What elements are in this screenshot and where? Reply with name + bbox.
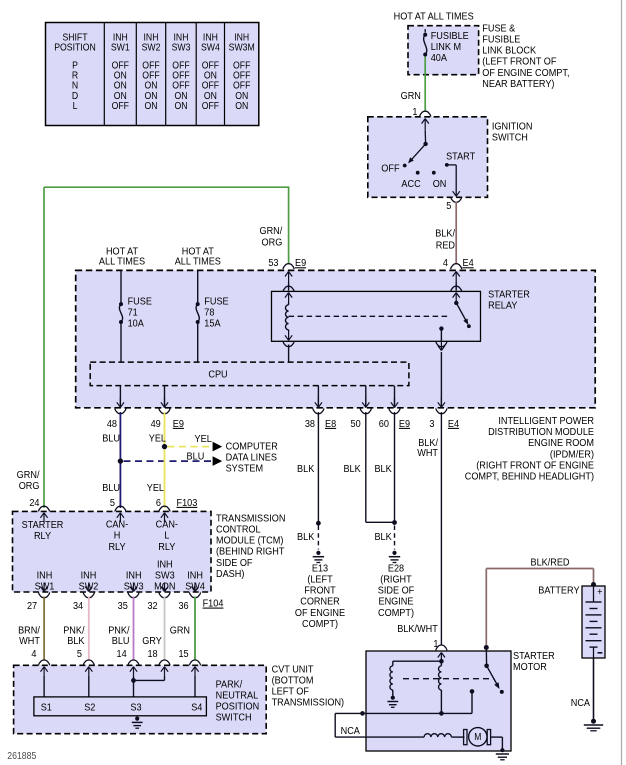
svg-text:BLK/WHT: BLK/WHT [397, 623, 438, 635]
relay switch arm [456, 303, 467, 323]
svg-text:INH: INH [144, 32, 159, 43]
svg-text:SW1: SW1 [111, 42, 130, 53]
label BRN/WHT [18, 625, 40, 637]
junction battery ground [591, 719, 596, 724]
wire PNK/BLK pin 34 to CVT pin 5 [88, 597, 90, 661]
svg-text:OFF: OFF [172, 60, 190, 71]
svg-text:INH: INH [157, 559, 173, 571]
starter motor brushes [451, 736, 464, 738]
starter motor solid box [366, 651, 511, 751]
svg-text:FUSE: FUSE [128, 296, 153, 308]
svg-text:INH: INH [81, 570, 97, 582]
dashed YEL data line [168, 446, 212, 448]
svg-text:H: H [114, 530, 121, 542]
svg-text:LEFT OF: LEFT OF [272, 686, 309, 698]
battery minus sign [598, 652, 603, 654]
svg-text:OFF: OFF [233, 70, 251, 81]
ground park/neutral switch [135, 717, 139, 721]
wire GRN fuse block to ignition switch [424, 57, 426, 75]
label BLK/RED vertical [435, 228, 455, 240]
svg-text:ON: ON [144, 90, 157, 101]
wire to fuse 78 [197, 270, 199, 303]
fuse 78 15A [196, 302, 200, 306]
svg-text:OFF: OFF [172, 70, 190, 81]
IPDM bottom pin labels [107, 418, 118, 430]
connector pin 5 ignition switch [451, 197, 462, 202]
ignition switch ACC contact [416, 171, 420, 175]
svg-text:D: D [72, 90, 78, 101]
svg-text:BLU: BLU [102, 483, 120, 495]
TCM top pin connectors [38, 506, 49, 511]
label NCA starter [341, 725, 361, 737]
svg-text:CAN-: CAN- [106, 519, 128, 531]
wire GRN pin 36 to CVT pin 15 [194, 597, 196, 661]
junction on BLU wire [118, 458, 123, 463]
svg-text:YEL: YEL [147, 483, 165, 495]
starter bus wire [363, 712, 473, 714]
starter switch arm [487, 666, 499, 687]
label OFF [381, 163, 399, 175]
connector pin 1 starter motor [436, 645, 447, 650]
svg-text:ON: ON [114, 70, 127, 81]
IPDM bottom pin connectors [119, 397, 121, 407]
svg-text:10A: 10A [128, 318, 145, 330]
dashed BLK to E13 [317, 526, 319, 550]
svg-text:INH: INH [126, 570, 142, 582]
junction on YEL wire [162, 444, 167, 449]
label CAN-L RLY [156, 519, 178, 531]
relay output contact [439, 326, 443, 330]
wire GRY joins PNK/BLU node [164, 676, 166, 681]
svg-text:SIDE OF: SIDE OF [378, 585, 415, 597]
label GRN/ORG right [259, 225, 282, 237]
svg-text:SW3: SW3 [155, 570, 175, 582]
svg-text:P: P [72, 60, 78, 71]
ignition switch ON contact [432, 171, 436, 175]
label PARK/NEUTRAL POSITION SWITCH [216, 679, 243, 691]
svg-text:40A: 40A [431, 53, 448, 65]
svg-text:OFF: OFF [202, 80, 220, 91]
label YEL upper [149, 433, 167, 445]
wire BLU pin 48 to TCM pin 5 [119, 412, 121, 508]
label GRN [401, 90, 421, 102]
svg-text:BLU: BLU [112, 636, 130, 648]
svg-text:DATA LINES: DATA LINES [226, 452, 278, 464]
entry arrow pin 4 inside IPDM [455, 272, 457, 283]
svg-text:FUSIBLE: FUSIBLE [482, 34, 520, 46]
label S4 [191, 702, 203, 714]
svg-text:OFF: OFF [142, 60, 160, 71]
data line arrow YEL [213, 442, 223, 452]
svg-text:COMPT): COMPT) [302, 618, 338, 630]
svg-text:CPU: CPU [208, 369, 227, 381]
label S2 [84, 702, 95, 714]
label HOT AT ALL TIMES fuse 78 [182, 246, 214, 258]
wire YEL pin 49 to TCM pin 6 [164, 412, 166, 508]
svg-text:OF ENGINE: OF ENGINE [295, 607, 346, 619]
svg-text:(LEFT FRONT OF: (LEFT FRONT OF [482, 56, 556, 68]
pin 4 label and E4 [443, 258, 449, 270]
svg-text:OFF: OFF [142, 70, 160, 81]
svg-text:71: 71 [128, 307, 138, 319]
svg-text:38: 38 [305, 418, 316, 430]
svg-text:ON: ON [144, 101, 157, 112]
page right border [621, 0, 623, 765]
svg-text:OFF: OFF [202, 60, 220, 71]
label PNK/BLK [63, 625, 85, 637]
dashed BLK to E28 [394, 526, 396, 550]
wire fuse 78 to CPU [197, 324, 199, 363]
fusible link M 40A fuse symbol [424, 29, 426, 33]
svg-text:FRONT: FRONT [304, 585, 335, 597]
svg-text:E9: E9 [399, 418, 410, 430]
label E13 location [312, 563, 329, 575]
label CAN-H RLY [106, 519, 128, 531]
CVT top pin connectors [39, 660, 50, 665]
svg-text:ON: ON [144, 80, 157, 91]
CPU output wires to bottom pins [119, 386, 121, 408]
svg-text:ORG: ORG [262, 237, 283, 249]
relay coil [288, 302, 290, 305]
CVT unit dashed box [14, 665, 267, 733]
svg-text:(RIGHT FRONT OF ENGINE: (RIGHT FRONT OF ENGINE [476, 460, 594, 472]
svg-text:BLK: BLK [297, 463, 315, 475]
svg-text:ON: ON [433, 178, 447, 190]
svg-text:ON: ON [204, 90, 217, 101]
starter hold-in coil [439, 666, 442, 690]
starter armature inductor [424, 734, 451, 737]
battery bottom stub [593, 647, 595, 658]
label INH SW2 [81, 570, 97, 582]
svg-text:SHIFT: SHIFT [62, 32, 87, 43]
svg-text:E9: E9 [295, 258, 306, 270]
starter switch contact [470, 689, 475, 694]
svg-text:START: START [446, 151, 475, 163]
svg-text:BLK: BLK [374, 531, 392, 543]
svg-text:INH: INH [113, 32, 128, 43]
svg-text:53: 53 [268, 258, 279, 270]
battery plus sign [597, 586, 603, 598]
svg-text:49: 49 [151, 418, 161, 430]
svg-text:MODULE (TCM): MODULE (TCM) [216, 535, 283, 547]
svg-text:4: 4 [443, 258, 449, 270]
label S3 [130, 702, 142, 714]
svg-text:(LEFT: (LEFT [307, 574, 332, 586]
svg-text:HOT AT ALL TIMES: HOT AT ALL TIMES [394, 11, 475, 23]
ground pull-in coil [391, 696, 395, 700]
svg-text:48: 48 [107, 418, 118, 430]
label S1 [41, 702, 52, 714]
svg-text:NEAR BATTERY): NEAR BATTERY) [482, 78, 554, 90]
svg-text:36: 36 [178, 600, 189, 612]
starter motor M symbol [469, 728, 487, 746]
ground battery [591, 719, 595, 723]
CPU dashed box [90, 362, 409, 386]
svg-text:SW2: SW2 [142, 42, 161, 53]
svg-text:SYSTEM: SYSTEM [226, 463, 264, 475]
IPDM E/R dashed box [76, 270, 596, 407]
svg-text:GRN/: GRN/ [17, 469, 40, 481]
relay switch pivot [455, 301, 457, 304]
data line arrow BLU [213, 456, 223, 466]
svg-text:34: 34 [73, 600, 84, 612]
svg-text:BLK: BLK [297, 531, 315, 543]
svg-text:INH: INH [203, 32, 218, 43]
svg-text:32: 32 [147, 600, 157, 612]
svg-text:F104: F104 [203, 598, 224, 610]
CVT internal wires to switch [43, 676, 45, 697]
svg-text:S1: S1 [41, 702, 52, 714]
CVT pin labels [31, 648, 37, 660]
wire contact to bus [471, 691, 473, 713]
svg-text:GRN/: GRN/ [259, 225, 282, 237]
svg-text:E9: E9 [173, 418, 184, 430]
wire to fuse 71 [120, 270, 122, 303]
svg-text:ON: ON [174, 101, 187, 112]
svg-text:OFF: OFF [233, 80, 251, 91]
label BATTERY [538, 585, 580, 597]
svg-text:CAN-: CAN- [156, 519, 178, 531]
svg-text:LINK M: LINK M [431, 42, 461, 54]
svg-text:COMPT, BEHIND HEADLIGHT): COMPT, BEHIND HEADLIGHT) [465, 471, 594, 483]
svg-text:NCA: NCA [341, 725, 361, 737]
svg-text:STARTER: STARTER [513, 650, 555, 662]
svg-text:(BOTTOM: (BOTTOM [272, 675, 314, 687]
svg-text:STARTER: STARTER [22, 519, 64, 531]
svg-text:R: R [72, 70, 78, 81]
svg-text:261885: 261885 [7, 750, 36, 761]
svg-text:E13: E13 [312, 563, 329, 575]
svg-text:DASH): DASH) [216, 568, 244, 580]
svg-text:15: 15 [178, 648, 189, 660]
svg-text:ON: ON [204, 70, 217, 81]
starter relay solid box [272, 291, 481, 341]
label FUSE 78 15A [204, 296, 229, 308]
svg-text:5: 5 [110, 497, 116, 509]
svg-text:FUSE &: FUSE & [482, 23, 515, 35]
connector pin 53 IPDM [283, 264, 294, 269]
table rows data [72, 60, 78, 71]
label BLK wire 38 [297, 463, 315, 475]
relay output connector bottom [440, 341, 442, 351]
svg-text:BLK: BLK [343, 463, 361, 475]
svg-text:BLU: BLU [187, 451, 205, 463]
svg-text:24: 24 [29, 497, 40, 509]
svg-text:INH: INH [37, 570, 53, 582]
ignition switch entry arrow pin 1 [424, 119, 426, 131]
wire BLK pin 60 [394, 412, 396, 522]
svg-text:3: 3 [429, 418, 435, 430]
svg-text:CONTROL: CONTROL [216, 524, 261, 536]
label STARTER RELAY [488, 289, 530, 301]
label ON [433, 178, 447, 190]
wire pin 53 to starter relay [288, 283, 290, 291]
svg-text:YEL: YEL [195, 434, 213, 446]
svg-text:GRN: GRN [401, 90, 421, 102]
svg-text:50: 50 [351, 418, 362, 430]
TCM bottom pin labels [27, 600, 37, 612]
svg-text:TRANSMISSION): TRANSMISSION) [272, 697, 344, 709]
label NCA battery [571, 697, 591, 709]
svg-text:RED: RED [436, 240, 455, 252]
wire PNK/BLU pin 35 to CVT pin 14 [133, 597, 135, 661]
label IGNITION SWITCH [492, 121, 533, 133]
wire GRN/ORG long left run [288, 187, 290, 263]
label CPU [208, 369, 227, 381]
label GRY [142, 636, 162, 648]
wire battery negative to ground [593, 658, 595, 721]
svg-text:60: 60 [379, 418, 390, 430]
label HOT AT ALL TIMES top [394, 11, 475, 23]
wire GRY pin 32 to CVT pin 18 [164, 597, 166, 661]
svg-text:5: 5 [446, 200, 452, 212]
ignition switch pivot [423, 142, 427, 146]
svg-text:N: N [72, 80, 78, 91]
svg-text:+: + [597, 586, 603, 598]
svg-text:14: 14 [117, 648, 128, 660]
svg-text:SWITCH: SWITCH [216, 712, 252, 724]
svg-text:FUSIBLE: FUSIBLE [431, 30, 469, 42]
wire START to pin 5 [447, 164, 456, 166]
pin 1 label starter motor [433, 638, 438, 650]
svg-text:TRANSMISSION: TRANSMISSION [216, 513, 285, 525]
entry arrow pin 53 inside IPDM [288, 272, 290, 283]
svg-text:SWITCH: SWITCH [492, 132, 528, 144]
label START [446, 151, 475, 163]
svg-text:OFF: OFF [233, 60, 251, 71]
wire BLK/RED battery to starter motor [485, 569, 487, 648]
relay coil connector top [283, 286, 294, 291]
ignition switch dashed box [368, 117, 488, 198]
label E28 location [388, 563, 405, 575]
svg-text:ON: ON [235, 101, 248, 112]
svg-text:OFF: OFF [381, 163, 399, 175]
svg-text:S4: S4 [191, 702, 203, 714]
svg-text:PARK/: PARK/ [216, 679, 243, 691]
ignition switch START contact [445, 163, 449, 167]
junction battery positive [591, 582, 596, 587]
label GRN [170, 625, 190, 637]
ignition switch rotor arm to OFF [410, 144, 426, 162]
pin 1 label ignition switch [412, 106, 417, 118]
label BLK/RED horizontal [530, 557, 569, 569]
fuse block dashed box [408, 26, 479, 75]
svg-text:L: L [73, 101, 78, 112]
svg-text:(IPDM/ER): (IPDM/ER) [550, 449, 594, 461]
svg-text:IGNITION: IGNITION [492, 121, 533, 133]
svg-text:INH: INH [187, 570, 203, 582]
svg-text:BATTERY: BATTERY [538, 585, 580, 597]
label YEL lower [147, 483, 165, 495]
svg-text:S2: S2 [84, 702, 95, 714]
starter pull-in coil [392, 661, 394, 666]
label COMPUTER DATA LINES SYSTEM [226, 441, 278, 453]
svg-text:E8: E8 [325, 418, 337, 430]
ignition switch OFF contact [403, 164, 407, 168]
CVT entry arrows [43, 667, 45, 676]
TCM bottom pin connectors [39, 592, 50, 597]
battery top stub [593, 586, 595, 602]
table header labels [62, 32, 87, 43]
wire BLK pin 50 [365, 412, 367, 522]
label BLU upper [102, 433, 120, 445]
svg-text:CVT UNIT: CVT UNIT [272, 664, 314, 676]
label BLU dashed [187, 451, 205, 463]
wire BLK pin 38 to ground E13 [317, 412, 319, 523]
label STARTER RLY [22, 519, 64, 531]
svg-text:L: L [164, 530, 170, 542]
battery box [582, 586, 605, 658]
connector pin 1 ignition switch [420, 111, 431, 116]
svg-text:ORG: ORG [19, 480, 40, 492]
label PNK/BLU [108, 625, 130, 637]
label GRN/ORG left [17, 469, 40, 481]
svg-text:4: 4 [31, 648, 37, 660]
svg-text:SW3M: SW3M [229, 42, 255, 53]
wire motor to ground [491, 736, 503, 738]
svg-text:POSITION: POSITION [216, 701, 260, 713]
svg-text:27: 27 [27, 600, 37, 612]
dashed BLU data line [124, 460, 212, 462]
svg-text:OFF: OFF [172, 80, 190, 91]
wire fuse 71 to CPU [120, 324, 122, 363]
pin 53 label and E9 [268, 258, 279, 270]
label FUSIBLE LINK M 40A [431, 30, 469, 42]
svg-text:15A: 15A [204, 318, 221, 330]
svg-text:POSITION: POSITION [54, 42, 96, 53]
svg-text:F103: F103 [177, 497, 198, 509]
svg-text:OF ENGINE COMPT,: OF ENGINE COMPT, [482, 67, 569, 79]
svg-text:COMPT): COMPT) [378, 607, 414, 619]
svg-text:BLK: BLK [67, 636, 85, 648]
svg-text:COMPUTER: COMPUTER [226, 441, 278, 453]
svg-text:WHT: WHT [19, 636, 40, 648]
svg-text:RELAY: RELAY [488, 300, 518, 312]
pin 5 label [446, 200, 452, 212]
svg-text:ACC: ACC [401, 178, 420, 190]
label BLK/WHT near starter [397, 623, 438, 635]
label FUSE & FUSIBLE LINK BLOCK location [482, 23, 515, 35]
svg-text:E28: E28 [388, 563, 405, 575]
svg-text:GRY: GRY [142, 636, 162, 648]
svg-text:ENGINE: ENGINE [379, 596, 414, 608]
svg-text:S3: S3 [130, 702, 142, 714]
svg-text:ON: ON [114, 80, 127, 91]
starter switch pivot [484, 664, 489, 669]
svg-text:M: M [474, 732, 481, 743]
label INH SW1 [37, 570, 53, 582]
svg-text:DISTRIBUTION MODULE: DISTRIBUTION MODULE [488, 427, 594, 439]
svg-text:YEL: YEL [149, 433, 167, 445]
label IPDM location [498, 415, 594, 427]
svg-text:BLK/: BLK/ [435, 228, 455, 240]
connector pin 4 IPDM [451, 264, 462, 269]
svg-text:BLU: BLU [102, 433, 120, 445]
label INH SW3 [126, 570, 142, 582]
starter solenoid dashed link [403, 678, 494, 680]
junction wires 50-60 [392, 520, 397, 525]
ground E28 [392, 551, 396, 555]
svg-text:FUSE: FUSE [204, 296, 229, 308]
svg-text:(BEHIND RIGHT: (BEHIND RIGHT [216, 546, 284, 558]
wire relay output to pin 3 [440, 329, 442, 342]
starter pin1 wire down to bus [440, 664, 442, 666]
svg-text:(RIGHT: (RIGHT [380, 574, 411, 586]
junction S3 node [131, 678, 136, 683]
label BLK wire 60 [374, 463, 392, 475]
svg-text:RLY: RLY [108, 541, 125, 553]
svg-text:78: 78 [204, 307, 215, 319]
